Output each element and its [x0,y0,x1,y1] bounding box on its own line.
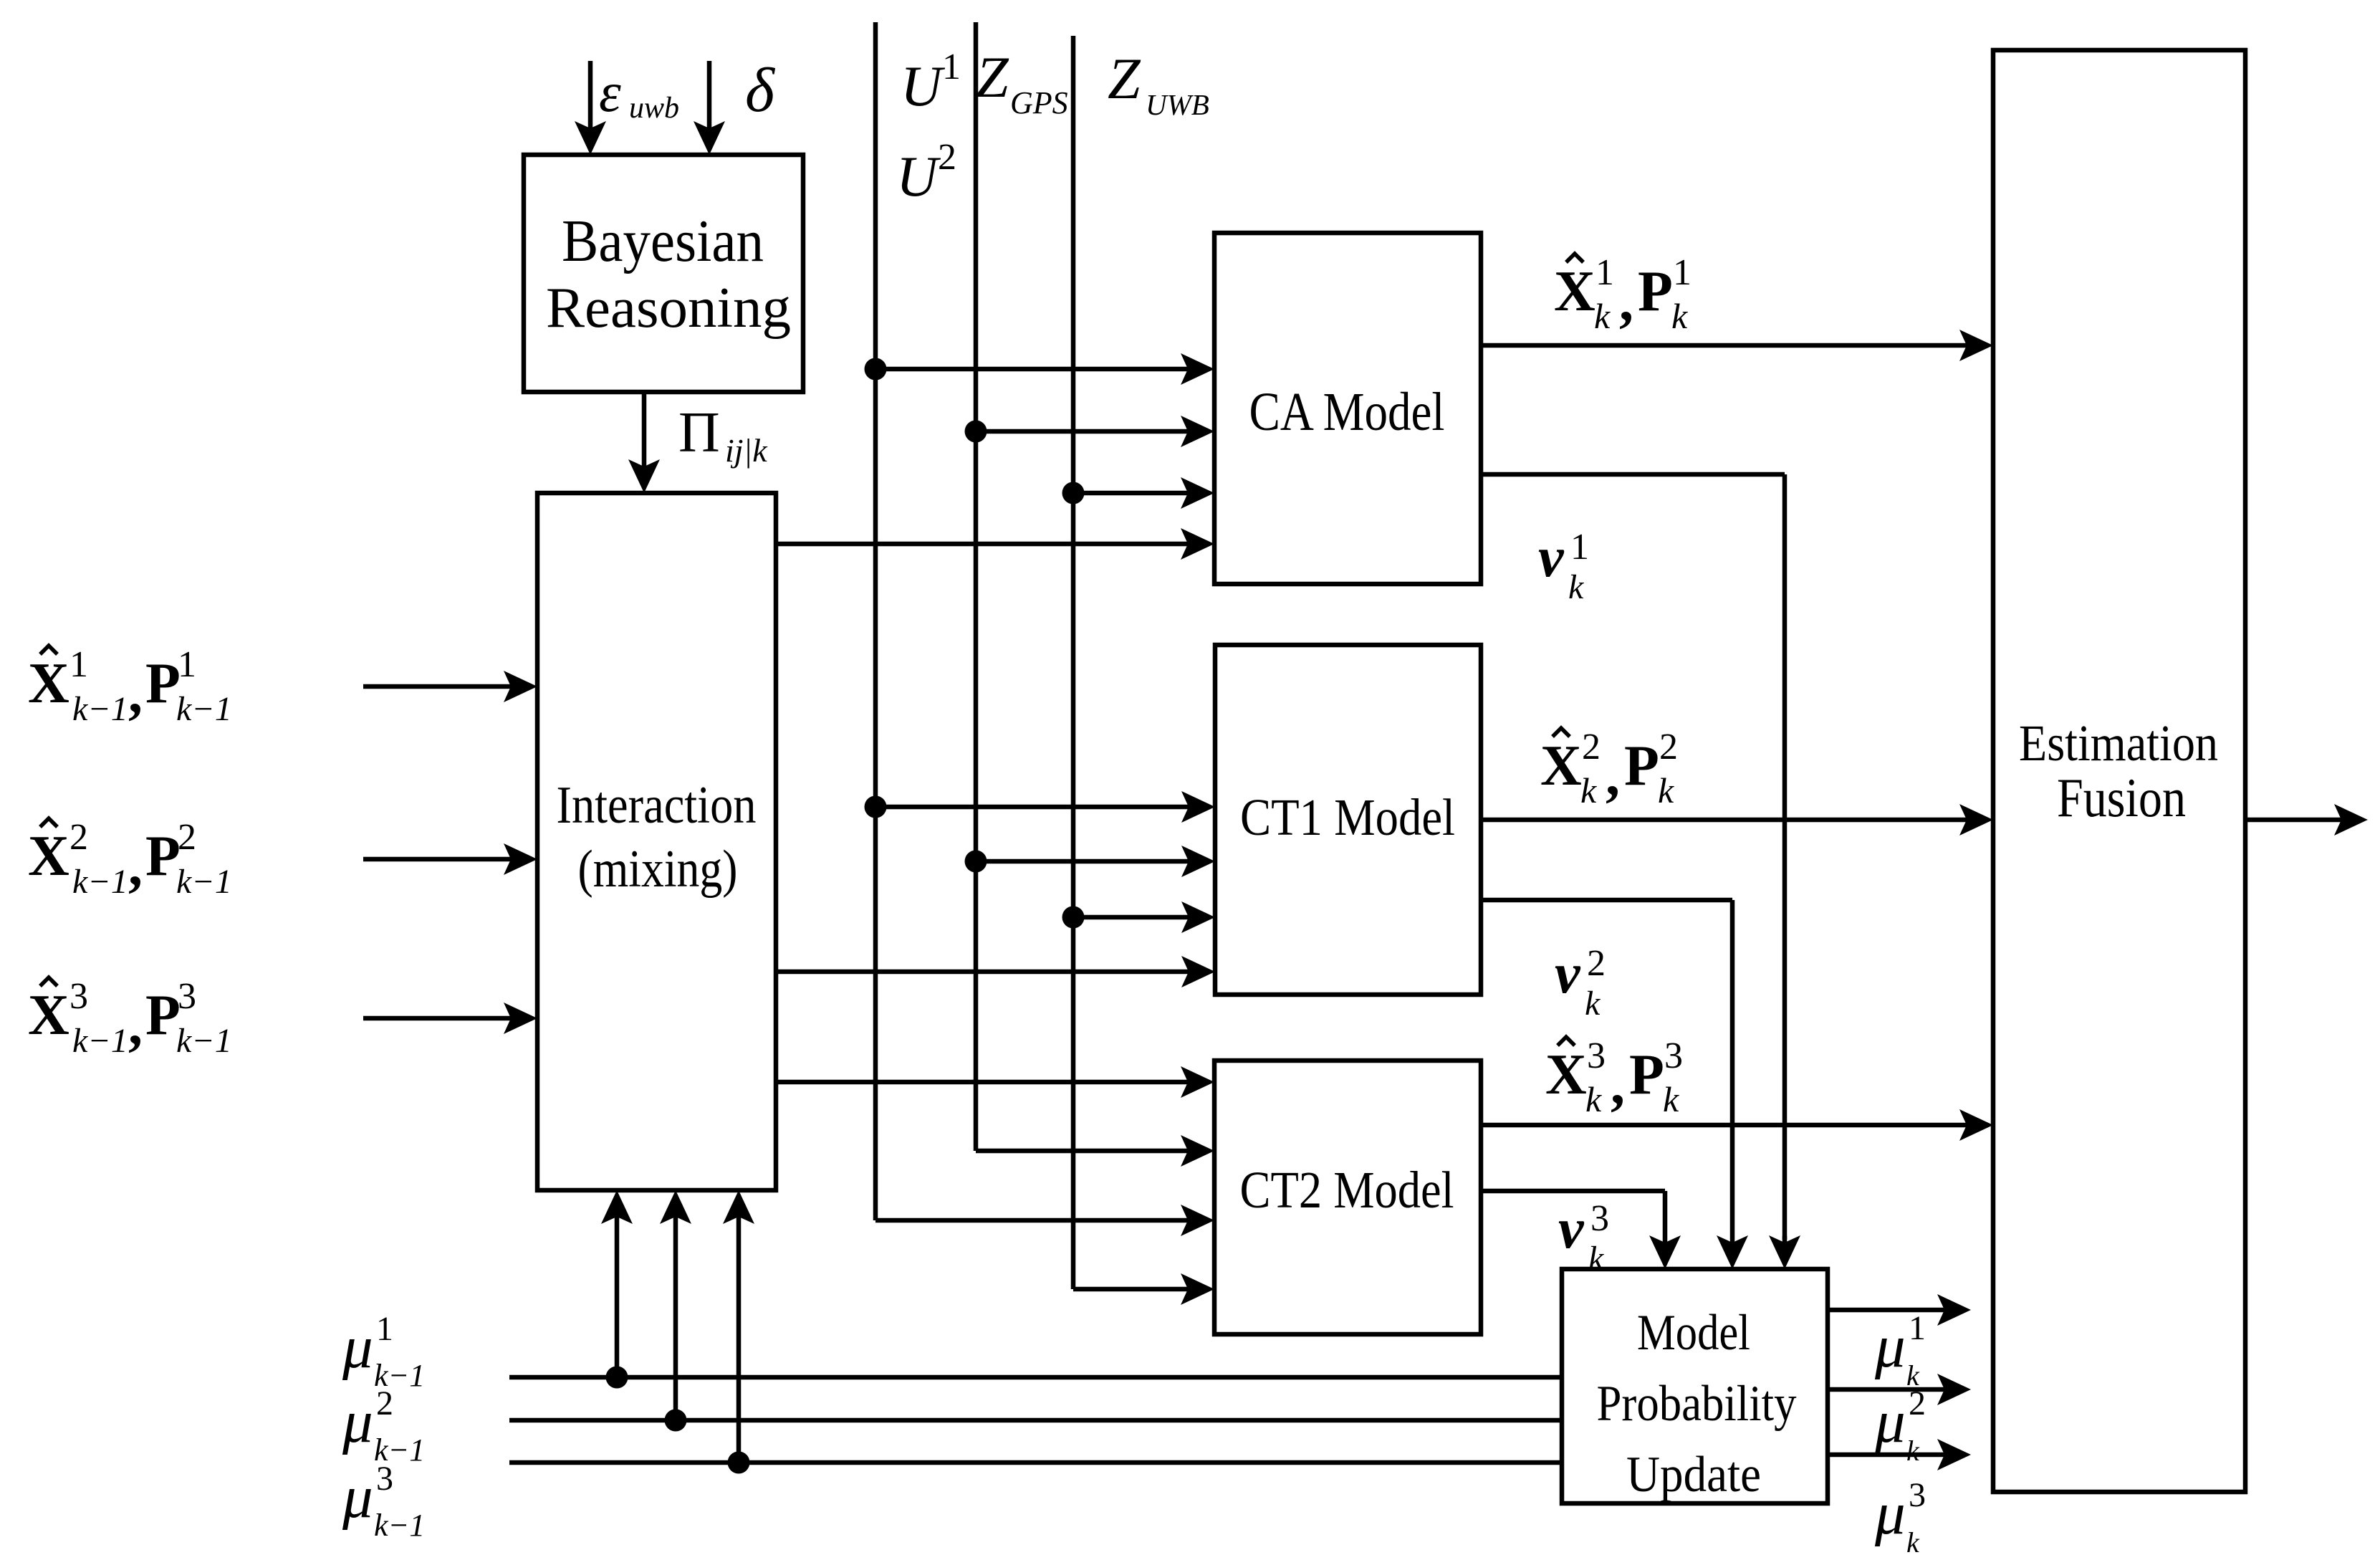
svg-text:2: 2 [376,1384,393,1422]
svg-text:k: k [1906,1526,1920,1559]
svg-text:X: X [28,652,69,715]
svg-text:CA Model: CA Model [1249,382,1445,442]
svg-text:k−1: k−1 [72,690,128,728]
svg-text:v: v [1555,942,1581,1005]
svg-text:Reasoning: Reasoning [546,277,791,340]
svg-text:CT1 Model: CT1 Model [1240,788,1455,846]
svg-text:k−1: k−1 [374,1508,425,1543]
svg-text:k: k [1585,1079,1602,1119]
svg-text:3: 3 [1590,1198,1609,1239]
svg-text:ij|k: ij|k [725,432,768,469]
svg-text:P: P [1624,734,1659,798]
svg-text:X: X [1540,734,1582,798]
svg-text:3: 3 [1664,1035,1683,1076]
svg-text:X: X [1554,260,1596,323]
svg-text:μ: μ [1874,1313,1906,1380]
svg-text:1: 1 [178,644,196,685]
svg-text:k−1: k−1 [176,863,232,901]
svg-text:U: U [901,55,946,118]
svg-text:Π: Π [678,401,720,464]
svg-text:k: k [1658,770,1674,810]
svg-text:1: 1 [69,644,88,685]
svg-text:2: 2 [1587,943,1606,984]
svg-text:2: 2 [178,817,196,858]
svg-text:k−1: k−1 [176,1022,232,1060]
svg-text:1: 1 [1909,1309,1926,1347]
svg-text:,: , [128,835,143,898]
svg-text:Z: Z [1108,46,1141,111]
svg-text:3: 3 [178,976,196,1017]
svg-text:1: 1 [376,1310,393,1348]
svg-text:2: 2 [1659,727,1678,767]
svg-text:CT2 Model: CT2 Model [1240,1161,1454,1219]
svg-text:P: P [1638,260,1673,323]
svg-text:k: k [1568,568,1585,606]
svg-text:,: , [128,994,143,1057]
svg-text:Update: Update [1626,1447,1761,1503]
svg-text:P: P [145,984,181,1047]
svg-text:P: P [145,652,181,715]
svg-text:Interaction: Interaction [557,776,757,835]
svg-text:Fusion: Fusion [2057,767,2186,828]
svg-text:k: k [1580,770,1597,810]
svg-text:2: 2 [1582,727,1601,767]
svg-text:X: X [28,984,69,1047]
svg-text:Bayesian: Bayesian [562,208,764,274]
svg-text:v: v [1558,1197,1585,1260]
svg-text:k: k [1671,296,1688,336]
svg-text:P: P [145,825,181,888]
svg-text:1: 1 [1673,252,1692,293]
svg-text:2: 2 [69,817,88,858]
svg-text:UWB: UWB [1146,88,1209,121]
svg-text:μ: μ [342,1388,373,1455]
svg-text:Model: Model [1637,1305,1750,1361]
svg-text:2: 2 [938,137,956,178]
svg-text:k: k [1594,296,1611,336]
svg-text:μ: μ [342,1313,373,1381]
svg-text:δ: δ [745,56,776,125]
svg-text:3: 3 [1587,1035,1606,1076]
svg-text:Probability: Probability [1597,1376,1797,1432]
svg-text:1: 1 [942,47,961,87]
svg-text:3: 3 [376,1460,393,1498]
svg-text:uwb: uwb [629,92,679,125]
svg-text:X: X [28,825,69,888]
svg-text:k: k [1906,1435,1920,1467]
svg-text:GPS: GPS [1010,85,1068,120]
svg-text:,: , [1611,1053,1625,1116]
svg-text:,: , [128,662,143,725]
svg-text:2: 2 [1909,1384,1926,1422]
svg-text:k: k [1588,1240,1605,1278]
svg-text:μ: μ [1874,1480,1906,1547]
svg-text:X: X [1545,1043,1587,1106]
svg-text:μ: μ [1874,1388,1906,1455]
svg-text:,: , [1619,270,1633,333]
svg-text:3: 3 [1909,1476,1926,1514]
svg-text:P: P [1629,1043,1664,1106]
svg-text:,: , [1606,745,1620,808]
svg-text:Z: Z [976,44,1009,110]
svg-text:v: v [1538,526,1565,589]
svg-text:μ: μ [342,1463,373,1531]
svg-text:k−1: k−1 [72,863,128,901]
svg-text:ε: ε [599,61,621,123]
svg-text:k−1: k−1 [176,690,232,728]
svg-text:k−1: k−1 [72,1022,128,1060]
svg-text:U: U [896,145,941,209]
svg-text:1: 1 [1596,252,1614,293]
svg-text:k: k [1663,1079,1679,1119]
svg-text:(mixing): (mixing) [578,840,738,899]
svg-text:k: k [1585,985,1601,1023]
svg-text:1: 1 [1570,527,1589,568]
svg-text:Estimation: Estimation [2019,714,2218,772]
svg-text:3: 3 [69,976,88,1017]
